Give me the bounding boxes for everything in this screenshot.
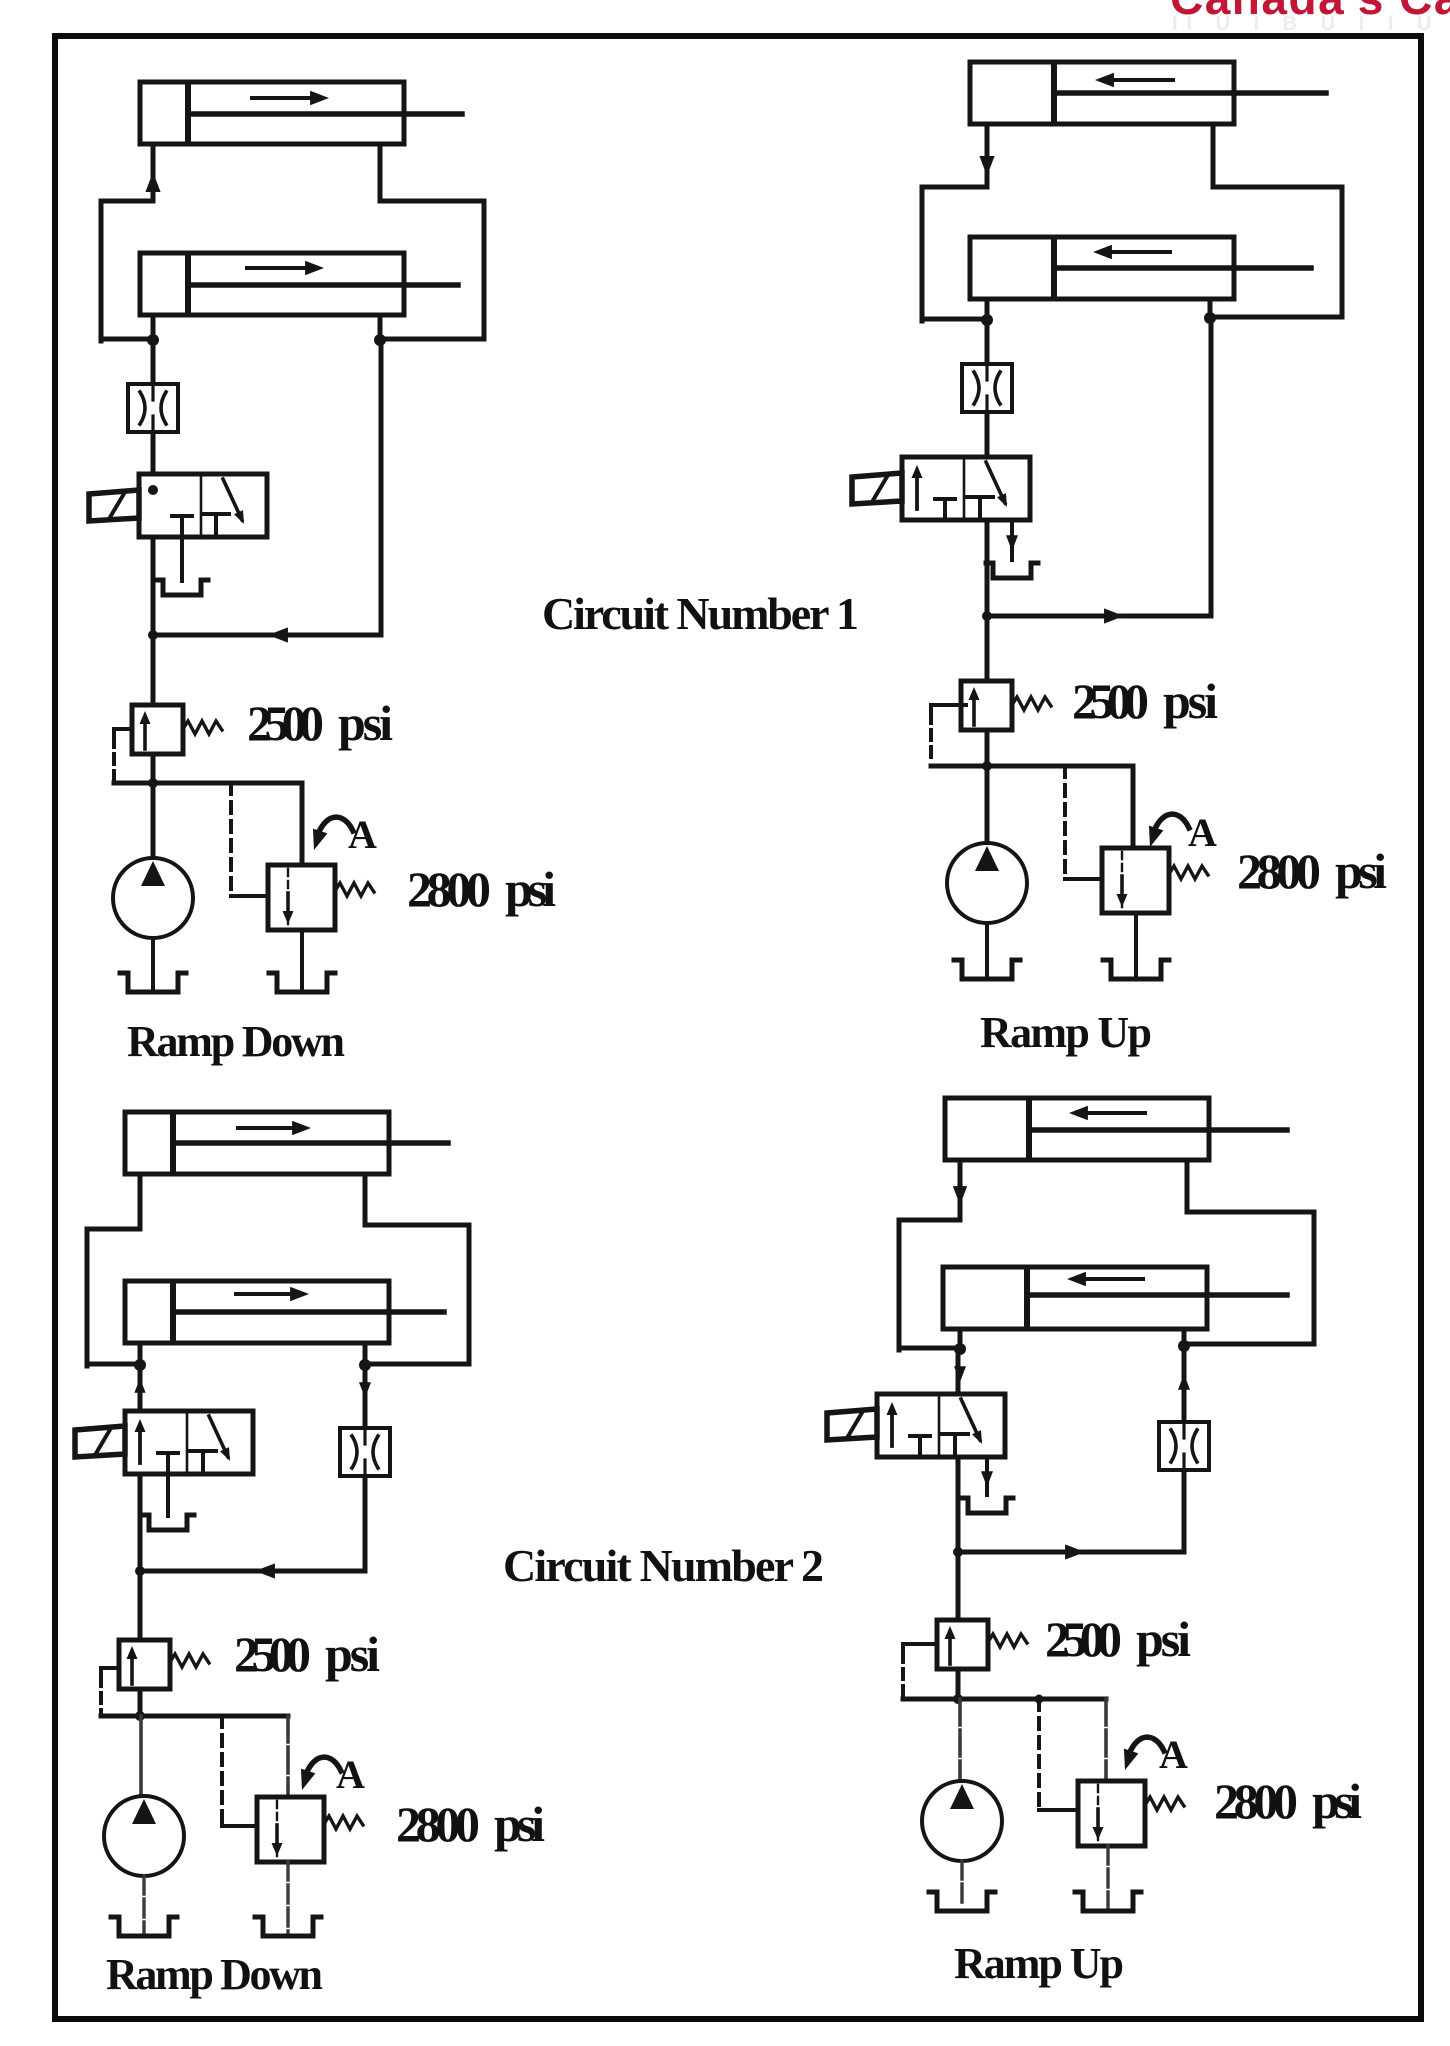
node: pilot branch junction	[1035, 1695, 1044, 1704]
svg-text:A: A	[348, 812, 377, 857]
pilot line to unloading valve (dashed)	[1063, 766, 1067, 879]
node: return junction	[148, 630, 158, 640]
node A arrow	[318, 817, 353, 834]
unloading valve UV4 2800 psi	[1078, 1781, 1145, 1846]
node: header junction	[148, 778, 158, 788]
wire: left rail bottom into junction	[899, 1346, 960, 1351]
node A arrow	[1129, 1737, 1164, 1754]
svg-text:2500: 2500	[247, 695, 324, 751]
valve drain tank	[961, 1498, 1013, 1513]
tank under unloading valve	[255, 1917, 321, 1936]
directional valve DV2	[902, 457, 1030, 520]
svg-text:Ramp Up: Ramp Up	[980, 1008, 1152, 1057]
pilot line to unloading valve (dashed)	[1037, 1699, 1041, 1810]
wire: cyl1 left port down to corner	[101, 145, 153, 341]
wire: pump to tank	[142, 1876, 145, 1932]
relief valve RV1 2500 psi	[132, 705, 183, 754]
relief valve RV4 2500 psi	[937, 1620, 988, 1669]
spring of UV4	[1145, 1797, 1184, 1810]
pump P1	[113, 858, 193, 938]
wire: cyl1 right port down, step right, down right rail	[380, 145, 484, 339]
node: left junction	[981, 314, 993, 326]
wire: valve to supply junction	[985, 520, 990, 618]
pump P4	[922, 1781, 1002, 1861]
svg-text:Ramp Down: Ramp Down	[106, 1950, 323, 1999]
wire: header to pump	[139, 1716, 143, 1795]
flow control valve (on right line)	[1159, 1422, 1209, 1470]
pilot line of RV2 (dashed)	[931, 705, 966, 713]
tank under pump	[120, 973, 186, 992]
arrow right inside C2	[247, 266, 307, 270]
rod of C3	[1056, 90, 1326, 96]
svg-text:psi: psi	[505, 861, 556, 917]
wire: header to pump	[958, 1699, 962, 1780]
svg-text:Ramp Up: Ramp Up	[954, 1939, 1124, 1988]
tank under unloading valve	[1075, 1892, 1141, 1911]
wire: header corner down to unloading valve	[286, 1716, 290, 1797]
node: right junction	[1178, 1340, 1190, 1352]
arrow left inside C7	[1086, 1111, 1145, 1115]
arrow right inside C1	[252, 96, 312, 100]
wire: relief valve to lower junction	[138, 1689, 143, 1716]
wire: relief valve to lower junction	[956, 1669, 961, 1699]
node: supply junction	[982, 611, 992, 621]
directional valve DV3	[125, 1411, 253, 1474]
cylinder C6 (lower)	[125, 1281, 389, 1343]
wire: valve to return junction	[151, 537, 156, 637]
node: header junction	[953, 1694, 963, 1704]
svg-text:2800: 2800	[1237, 843, 1321, 899]
node: right junction	[374, 334, 386, 346]
svg-text:2800: 2800	[407, 861, 491, 917]
wire: right line into flow control	[1182, 1346, 1187, 1422]
wire: junction down to relief valve	[956, 1552, 961, 1620]
svg-text:2500: 2500	[1072, 673, 1149, 729]
flow control valve	[962, 364, 1012, 412]
node: header junction	[135, 1711, 145, 1721]
lever of DV3	[75, 1426, 125, 1457]
pump P3	[104, 1796, 184, 1876]
wire: header to pump	[151, 783, 156, 860]
wire: right line down to supply corner	[987, 318, 1211, 616]
arrow right inside C5	[238, 1126, 294, 1130]
wire: cyl2 right port to junction	[1208, 299, 1213, 320]
spring of RV2	[1012, 697, 1051, 710]
svg-text:Circuit Number 1: Circuit Number 1	[542, 588, 859, 639]
rod of C1	[190, 111, 462, 117]
wire: pump to tank	[151, 938, 155, 988]
arrow left on return line	[255, 1563, 275, 1578]
wire: cyl1 left port down to corner	[87, 1174, 140, 1366]
svg-text:A: A	[1159, 1732, 1188, 1777]
arrow down on cyl1 left drop	[953, 1186, 967, 1205]
spring of RV1	[183, 721, 222, 734]
rod of C4	[1056, 265, 1311, 271]
wire: main line junction to valve	[956, 1349, 961, 1396]
cylinder C8 (lower)	[943, 1267, 1207, 1329]
wire: pump discharge header	[114, 781, 302, 786]
arrow left inside C8	[1084, 1277, 1143, 1281]
wire: main line junction to flow control	[151, 340, 156, 384]
relief valve RV2 2500 psi	[961, 681, 1012, 730]
pilot line to unloading valve (dashed)	[229, 783, 233, 896]
wire: junction down to relief valve	[151, 635, 156, 705]
tank under pump	[954, 960, 1020, 979]
valve drain stem	[166, 1474, 170, 1516]
wire: valve to supply junction	[956, 1457, 961, 1554]
node A arrow	[1154, 814, 1189, 831]
wire: pump discharge header	[903, 1697, 1106, 1702]
svg-text:2500: 2500	[1045, 1611, 1122, 1667]
svg-text:2800: 2800	[396, 1796, 480, 1852]
wire: valve to return junction	[138, 1474, 143, 1573]
node: left junction	[147, 334, 159, 346]
wire: main line junction to flow control	[985, 320, 990, 364]
cylinder C2 (lower)	[140, 253, 404, 315]
svg-text:2800: 2800	[1214, 1773, 1298, 1829]
unloading valve UV1 2800 psi	[268, 865, 335, 930]
wire: cyl2 left port to junction	[958, 1329, 963, 1352]
lever of DV1	[89, 490, 139, 521]
wire: flow control down to return corner	[140, 1476, 365, 1571]
relief valve RV3 2500 psi	[119, 1640, 170, 1689]
cylinder C3 (top)	[970, 62, 1234, 124]
wire: cyl1 left port down to corner	[899, 1160, 960, 1350]
wire: cyl1 right port down, step right, down right rail	[1184, 1160, 1314, 1344]
rod of C5	[175, 1140, 448, 1146]
svg-text:Ramp Down: Ramp Down	[127, 1017, 345, 1066]
valve drain stem w/ arrow	[985, 1457, 989, 1495]
node: supply junction	[953, 1547, 963, 1557]
svg-text:psi: psi	[494, 1796, 545, 1852]
wire: relief valve to lower junction	[985, 730, 990, 766]
arrow down on cyl1 left drop	[979, 156, 994, 176]
node: return junction	[135, 1566, 145, 1576]
wire: header corner down to unloading valve	[300, 783, 305, 865]
tank under pump	[929, 1892, 995, 1911]
spring of RV4	[988, 1634, 1027, 1647]
rod of C6	[175, 1309, 444, 1315]
arrow down below left junction	[954, 1366, 966, 1382]
valve drain stem w/ arrow	[1010, 520, 1014, 560]
node: right junction	[1204, 312, 1216, 324]
wire: main line junction to valve	[138, 1365, 143, 1411]
svg-text:A: A	[1188, 810, 1217, 855]
arrow down below right junction	[359, 1382, 371, 1398]
wire: left rail bottom into junction	[922, 317, 987, 322]
pilot line of RV3 (dashed)	[101, 1668, 119, 1676]
unloading valve UV3 2800 psi	[257, 1797, 324, 1862]
tank under unloading valve	[1103, 960, 1169, 979]
valve drain tank	[156, 580, 208, 595]
wire: unloading valve to tank	[1134, 913, 1138, 975]
directional valve DV1	[139, 474, 267, 537]
wire: header corner down to unloading valve	[1131, 766, 1136, 848]
rod of C7	[1031, 1127, 1287, 1133]
unloading valve UV2 2800 psi	[1102, 848, 1169, 913]
cylinder C7 (top)	[945, 1098, 1209, 1160]
rod of C2	[190, 282, 458, 288]
svg-text:Circuit Number 2: Circuit Number 2	[503, 1540, 824, 1591]
pilot line of RV4 (dashed)	[903, 1644, 937, 1652]
rod of C8	[1029, 1292, 1287, 1298]
wire: cyl2 right port to junction	[1182, 1329, 1187, 1348]
arrow up on right line	[1178, 1374, 1190, 1390]
wire: header corner down to unloading valve	[1104, 1699, 1108, 1781]
valve drain tank	[986, 563, 1038, 578]
wire: cyl2 left port to junction	[151, 315, 156, 344]
wire: right line into flow control	[363, 1365, 368, 1428]
node: left junction	[954, 1343, 966, 1355]
spring of RV3	[170, 1654, 209, 1667]
lever of DV4	[827, 1409, 877, 1440]
wire: cyl2 right port to junction	[378, 315, 383, 342]
pilot line of RV1 (dashed)	[114, 729, 132, 737]
node: header junction	[982, 761, 992, 771]
wire: pump discharge header	[931, 764, 1133, 769]
wire: pump to tank	[960, 1861, 963, 1907]
lever of DV2	[852, 473, 902, 504]
arrow up on cyl1 left drop	[145, 172, 160, 192]
wire: cyl1 right port down, step right, down right rail	[365, 1174, 469, 1364]
wire: unloading valve to tank	[1106, 1846, 1109, 1907]
wire: junction down to relief valve	[985, 616, 990, 681]
wire: flow control to valve	[151, 432, 156, 476]
wire: left rail bottom into junction	[101, 337, 153, 342]
arrow up below left junction	[134, 1378, 145, 1393]
svg-text:A: A	[336, 1752, 365, 1797]
wire: flow control down to supply corner	[958, 1470, 1184, 1552]
pump P2	[947, 843, 1027, 923]
arrow left inside C4	[1110, 250, 1170, 254]
wire: pump to tank	[985, 923, 989, 975]
valve drain stem	[180, 537, 184, 581]
wire: relief valve to lower junction	[151, 754, 156, 783]
valve drain tank	[142, 1515, 194, 1530]
svg-text:psi: psi	[1312, 1773, 1362, 1829]
wire: cyl1 left port down to corner	[922, 127, 987, 321]
pilot line to unloading valve (dashed)	[220, 1716, 224, 1826]
wire: left rail bottom into junction	[87, 1362, 140, 1367]
wire: unloading valve to tank	[300, 930, 304, 988]
spring of UV2	[1169, 866, 1208, 879]
spring of UV1	[335, 883, 374, 896]
cylinder C1 (top)	[140, 82, 404, 144]
cylinder C5 (top)	[125, 1112, 389, 1174]
wire: cyl2 left port to junction	[985, 299, 990, 324]
cylinder C4 (lower)	[970, 237, 1234, 299]
flow control valve	[128, 384, 178, 432]
node: left junction	[134, 1359, 146, 1371]
flow control valve (on right line)	[340, 1428, 390, 1476]
node: right junction	[359, 1359, 371, 1371]
wire: flow control to valve	[985, 412, 990, 459]
wire: unloading valve to tank	[286, 1862, 289, 1932]
wire: cyl2 left port to junction	[138, 1343, 143, 1368]
node A arrow	[306, 1757, 341, 1774]
wire: cyl1 right port down, step right, down right rail	[1210, 127, 1342, 317]
directional valve DV4	[877, 1394, 1005, 1457]
arrow right inside C6	[236, 1292, 292, 1296]
wire: pump discharge header	[101, 1714, 288, 1719]
svg-text:psi: psi	[1335, 843, 1387, 899]
spring of UV3	[324, 1816, 363, 1829]
wire: junction down to relief valve	[138, 1571, 143, 1640]
tank under unloading valve	[269, 973, 335, 992]
tank under pump	[111, 1917, 177, 1936]
svg-text:psi: psi	[325, 1626, 380, 1682]
arrow left inside C3	[1112, 78, 1173, 82]
arrow left on return line	[268, 627, 288, 642]
svg-text:2500: 2500	[234, 1626, 311, 1682]
arrow right on supply line	[1065, 1544, 1085, 1559]
red header text clipped at top edge	[1170, 0, 1450, 25]
wire: right line down to return corner	[153, 340, 381, 635]
arrow right on supply line	[1104, 608, 1124, 623]
svg-text:psi: psi	[338, 695, 393, 751]
wire: header to pump	[985, 766, 990, 845]
svg-text:psi: psi	[1136, 1611, 1191, 1667]
wire: cyl2 right port to junction	[363, 1343, 368, 1368]
svg-text:psi: psi	[1163, 673, 1218, 729]
